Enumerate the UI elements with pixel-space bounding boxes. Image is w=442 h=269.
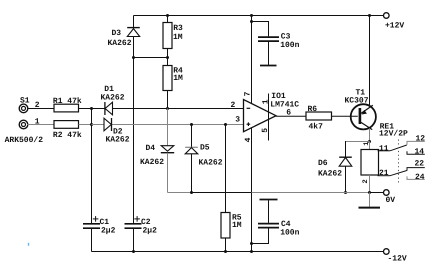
wire op-amp pins 1/5 offset null [268,94,270,141]
relay RE1 coil [361,122,408,192]
svg-text:12V/2P: 12V/2P [379,130,408,139]
svg-text:KA262: KA262 [318,170,342,179]
relay contact pole 2 (21/22/24) [378,160,425,183]
node 0V/D5 junction [190,191,193,194]
svg-text:KA262: KA262 [106,135,130,144]
node collector/D6 junction [368,140,371,143]
svg-text:R3: R3 [173,24,183,33]
diode D5 KA262 [185,125,223,193]
resistor R1 47k [27,97,91,112]
ground stub and bar [359,193,381,208]
diode D2 KA262 [104,118,130,144]
node rail/pin7 junction [250,14,253,17]
node pin7/C3 junction [250,20,253,23]
svg-text:+12V: +12V [385,21,404,30]
connector S1 terminal 1 [19,118,40,129]
terminal 0V [384,190,396,206]
svg-text:KA262: KA262 [108,39,132,48]
artifact small blue mark [28,243,29,246]
svg-text:1M: 1M [232,221,242,230]
node 0V/relay-coil junction [368,191,371,194]
svg-text:KA262: KA262 [199,158,223,167]
svg-text:21: 21 [379,169,389,178]
svg-text:3: 3 [235,116,240,125]
node rail/pin4 junction [250,250,253,253]
svg-text:KC307: KC307 [345,97,369,106]
svg-text:7: 7 [244,91,253,96]
resistor R4 1M [163,58,183,109]
node 0V/D6 junction [344,191,347,194]
wire -12V bottom rail [92,251,384,253]
svg-text:12: 12 [416,134,426,143]
svg-text:14: 14 [415,148,425,157]
wire C1 branch vertical [91,109,93,224]
node pin3/R5 junction [224,123,227,126]
node pin3/C1 junction [90,123,93,126]
relay contact pole 1 (11/12/14) [378,134,426,156]
node jumper right junction [166,56,169,59]
wire D3/C2 vertical net [133,58,135,224]
svg-text:LM741C: LM741C [270,101,299,110]
wire +12V top rail [134,15,384,17]
svg-text:R6: R6 [308,105,318,114]
svg-text:KA262: KA262 [140,158,164,167]
svg-text:2µ2: 2µ2 [101,227,116,236]
svg-text:5: 5 [261,128,270,133]
svg-text:100n: 100n [280,228,299,237]
wire op-amp inverting input (pin 2) [92,108,244,110]
connector S1 terminal 2 [19,96,40,112]
svg-text:R1 47k: R1 47k [53,97,82,106]
svg-text:D4: D4 [146,144,156,153]
svg-text:ARK500/2: ARK500/2 [5,136,44,145]
resistor R6 4k7 [306,105,358,132]
node pin3/D5 junction [190,123,193,126]
node rail/T1-emitter junction [368,14,371,17]
svg-text:4k7: 4k7 [309,123,324,132]
svg-text:1: 1 [261,99,270,104]
svg-text:0V: 0V [386,196,396,205]
capacitor C4 100n [252,200,300,244]
svg-text:4: 4 [244,137,253,142]
wire 0V node line [168,153,384,193]
svg-text:R2 47k: R2 47k [53,131,82,140]
wire op-amp pin 4 to rail [251,128,253,252]
capacitor C3 100n [252,22,300,66]
node rail/C2 junction [132,250,135,253]
wire T1 collector to relay coil [369,128,371,141]
svg-text:2: 2 [231,101,236,110]
node rail/R5 junction [224,250,227,253]
svg-text:2µ2: 2µ2 [143,227,158,236]
wire op-amp non-inverting input (pin 3) [92,124,244,126]
node pin2/R4-D4 junction [166,107,169,110]
terminal -12V [384,249,407,264]
node pin2/C1 junction [90,107,93,110]
svg-text:KA262: KA262 [101,94,125,103]
relay separator dashed line [398,140,400,185]
diode D6 KA262 [318,141,370,193]
svg-text:D3: D3 [112,29,122,38]
svg-text:1: 1 [363,141,371,145]
node pin4/C4 junction [250,242,253,245]
capacitor C2 2u2 [125,216,158,251]
resistor R3 1M [163,16,183,58]
wire op-amp output (pin 6) [276,115,307,117]
svg-text:1: 1 [35,118,40,127]
resistor R5 1M [221,125,242,252]
svg-text:22: 22 [415,160,425,169]
diode D3 KA262 [108,16,140,58]
svg-text:2: 2 [362,179,370,183]
terminal +12V [384,13,405,31]
transistor T1 KC307 [345,16,376,130]
svg-text:11: 11 [379,144,389,153]
capacitor C1 2u2 [83,216,116,251]
svg-text:1M: 1M [173,33,183,42]
diode D1 KA262 [101,85,125,115]
svg-text:S1: S1 [20,96,30,105]
svg-text:-12V: -12V [388,254,407,263]
svg-text:24: 24 [415,173,425,182]
svg-text:100n: 100n [280,41,299,50]
node jumper left junction [132,56,135,59]
wire D3-anode to R3/R4 jumper [134,57,168,59]
svg-text:D5: D5 [200,143,210,152]
op-amp IO1 LM741C [231,92,300,132]
diode D4 KA262 [140,109,174,193]
svg-text:D6: D6 [318,159,328,168]
svg-text:1M: 1M [173,74,183,83]
resistor R2 47k [27,121,91,140]
wire op-amp pin 7 to rail [251,16,253,105]
node rail/R3 junction [166,14,169,17]
